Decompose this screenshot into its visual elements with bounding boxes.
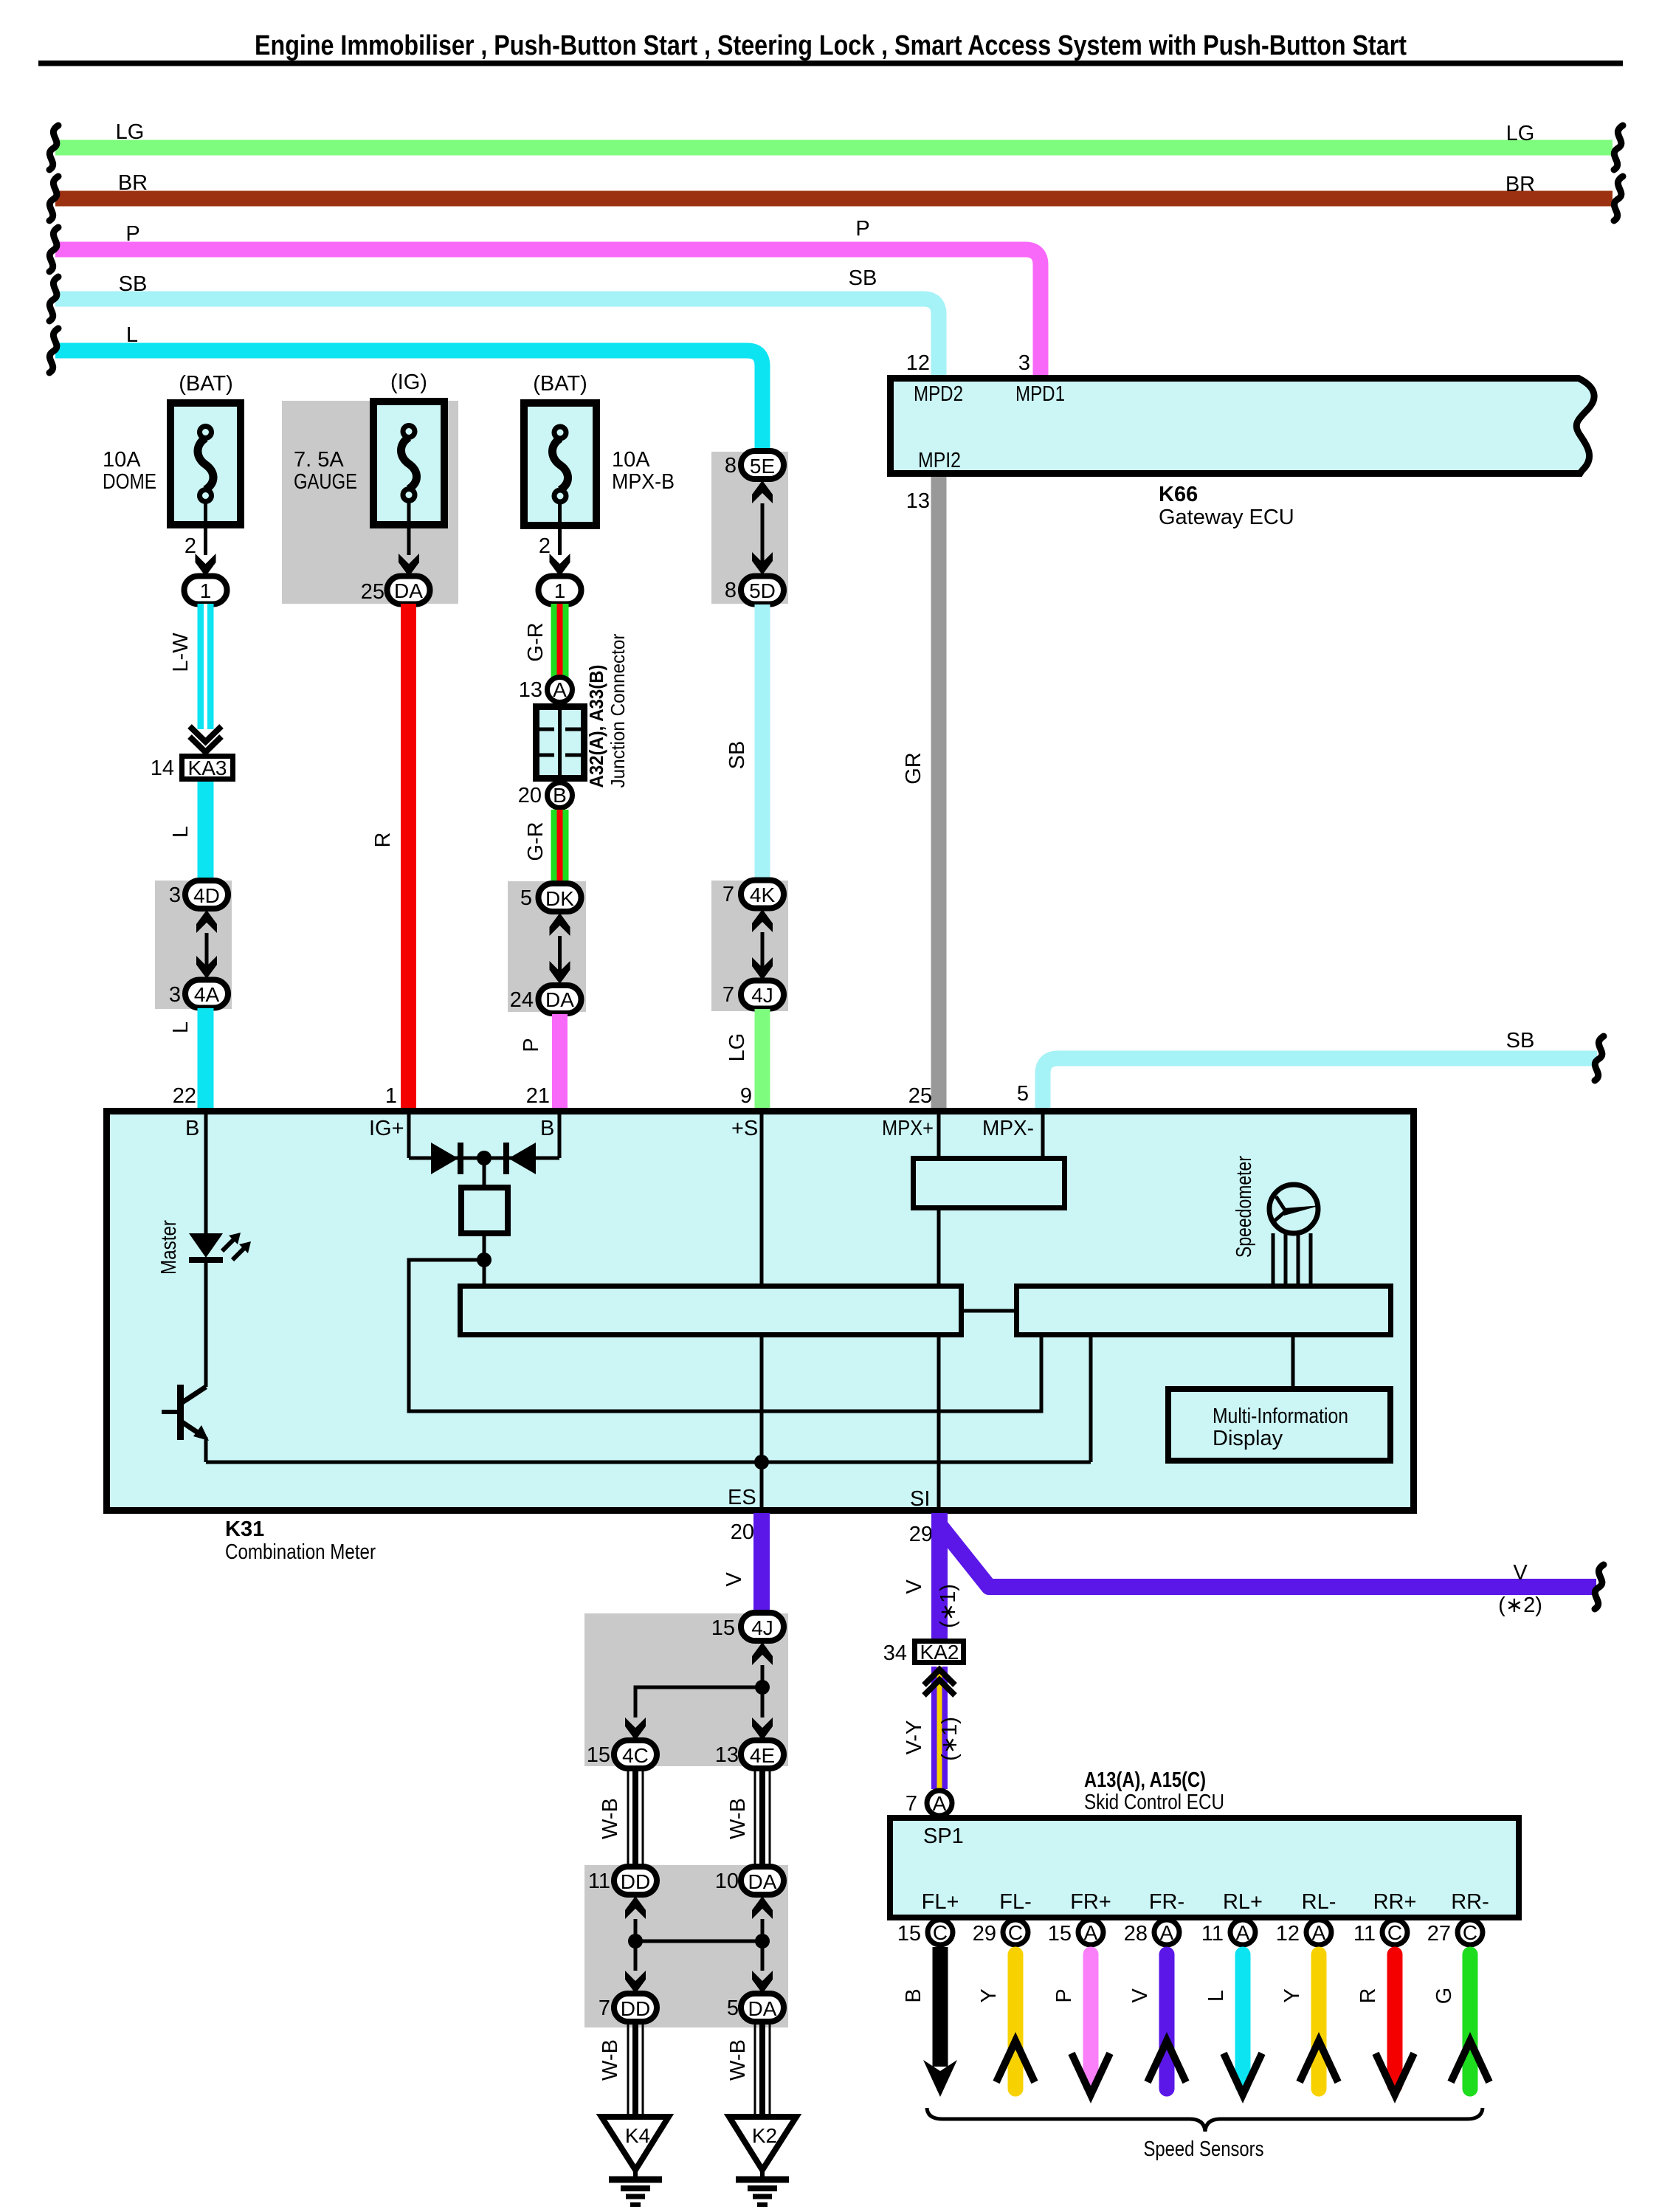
svg-text:(∗2): (∗2) bbox=[1498, 1593, 1542, 1617]
node diode junction bbox=[477, 1151, 492, 1165]
svg-text:24: 24 bbox=[510, 988, 534, 1012]
wire P bus bbox=[55, 217, 1041, 375]
arrow down into 4C bbox=[625, 1717, 646, 1740]
svg-text:W-B: W-B bbox=[599, 2039, 622, 2081]
connector DD pin 11 bbox=[588, 1867, 657, 1895]
svg-text:P: P bbox=[125, 222, 139, 246]
squiggle BR right bbox=[1614, 176, 1623, 221]
block MPX transceiver bbox=[914, 1159, 1065, 1208]
wire GR pin 13 (K66 MPI2 to meter MPX+ 25) bbox=[902, 477, 939, 1108]
wire V (meter SI pin 29 to KA2) bbox=[903, 1513, 960, 1640]
junction connector A32(A) A33(B) bbox=[537, 633, 630, 788]
svg-text:Skid Control ECU: Skid Control ECU bbox=[1084, 1791, 1224, 1814]
svg-text:7: 7 bbox=[599, 1996, 610, 2020]
svg-text:DOME: DOME bbox=[103, 470, 156, 494]
svg-text:3: 3 bbox=[169, 983, 181, 1007]
svg-text:MPD2: MPD2 bbox=[914, 382, 963, 406]
wire meter +S/ES vertical bbox=[760, 1114, 764, 1507]
svg-text:Gateway ECU: Gateway ECU bbox=[1159, 506, 1294, 529]
svg-text:G-R: G-R bbox=[524, 622, 548, 661]
svg-text:K4: K4 bbox=[625, 2124, 650, 2147]
connector 4J pin 7 bbox=[722, 981, 784, 1009]
svg-text:B: B bbox=[902, 1988, 925, 2002]
svg-text:P: P bbox=[520, 1038, 543, 1052]
squiggle SB left bbox=[49, 277, 58, 321]
svg-text:Multi-Information: Multi-Information bbox=[1213, 1405, 1348, 1428]
svg-text:DA: DA bbox=[394, 579, 423, 602]
squiggle LG right bbox=[1614, 125, 1623, 170]
wire to resistor bbox=[483, 1158, 486, 1185]
svg-text:21: 21 bbox=[526, 1084, 550, 1108]
wire B pin down bbox=[558, 1114, 562, 1158]
connector C pin 27 (RR-) bbox=[1427, 1920, 1483, 1946]
svg-text:G-R: G-R bbox=[524, 821, 548, 861]
connector C pin 11 (RR+) bbox=[1353, 1920, 1407, 1946]
connector 4E pin 13 bbox=[715, 1740, 784, 1768]
arrow down into DA bbox=[550, 961, 570, 984]
connector A pin 15 (FR+) bbox=[1048, 1920, 1103, 1946]
svg-text:FR-: FR- bbox=[1149, 1890, 1184, 1914]
svg-text:SI: SI bbox=[910, 1487, 930, 1511]
double chevron arrow KA2 bbox=[924, 1670, 955, 1695]
svg-text:A: A bbox=[1312, 1921, 1326, 1944]
arrow up into 4K bbox=[752, 909, 773, 932]
arrow up into DA bbox=[752, 1896, 773, 1919]
wire fuse GAUGE out bbox=[407, 501, 411, 555]
fuse DOME 10A (BAT) bbox=[103, 372, 241, 525]
wire loop left bbox=[409, 1260, 1041, 1411]
diode D1 bbox=[431, 1143, 463, 1174]
block bar1 bbox=[461, 1286, 962, 1335]
svg-text:GAUGE: GAUGE bbox=[294, 470, 357, 494]
wire SB (meter MPX- pin 5 to right) bbox=[1017, 1029, 1597, 1108]
wire R (RR+ sensor) bbox=[1356, 1954, 1414, 2095]
svg-text:5E: 5E bbox=[750, 455, 775, 478]
svg-text:11: 11 bbox=[588, 1870, 610, 1893]
svg-text:W-B: W-B bbox=[599, 1798, 622, 1839]
arrow up into DK bbox=[550, 913, 570, 936]
svg-text:12: 12 bbox=[906, 351, 930, 375]
connector 1 (MPX-B) bbox=[539, 576, 582, 604]
ECU K31 Combination Meter box bbox=[107, 1112, 1414, 1511]
svg-text:20: 20 bbox=[518, 784, 542, 807]
node DA link bbox=[755, 1934, 770, 1949]
svg-text:7: 7 bbox=[722, 883, 734, 906]
svg-text:34: 34 bbox=[883, 1641, 907, 1665]
svg-text:7. 5A: 7. 5A bbox=[294, 448, 344, 472]
svg-text:A13(A), A15(C): A13(A), A15(C) bbox=[1084, 1768, 1206, 1792]
squiggle LG left bbox=[49, 125, 58, 170]
wire W-B (DA to ground K2) bbox=[726, 2022, 770, 2118]
svg-text:5: 5 bbox=[1017, 1082, 1029, 1106]
svg-text:SP1: SP1 bbox=[923, 1825, 964, 1848]
wire W-B (4C to DD) bbox=[599, 1768, 643, 1867]
wire L (KA3 to 4D) bbox=[169, 782, 206, 881]
svg-text:P: P bbox=[1052, 1988, 1076, 2002]
svg-text:11: 11 bbox=[1201, 1922, 1224, 1946]
svg-text:(∗1): (∗1) bbox=[937, 1584, 960, 1628]
wire fuse MPX-B pin 2 bbox=[539, 501, 560, 558]
svg-text:13: 13 bbox=[519, 678, 542, 702]
connector A pin 28 (FR-) bbox=[1124, 1920, 1179, 1946]
svg-text:L: L bbox=[169, 826, 193, 838]
ground K4 bbox=[601, 2117, 669, 2180]
svg-text:FR+: FR+ bbox=[1070, 1890, 1111, 1914]
wire Y (FL- sensor) bbox=[977, 1954, 1035, 2089]
connector 4A pin 3 bbox=[169, 980, 228, 1008]
svg-text:R: R bbox=[371, 833, 395, 848]
wire IG+ pin down bbox=[407, 1114, 411, 1158]
svg-text:20: 20 bbox=[731, 1520, 754, 1544]
squiggle P left bbox=[49, 227, 58, 272]
connector A pin 11 (RL+) bbox=[1201, 1920, 1255, 1946]
arrow down into 4J bbox=[752, 957, 773, 980]
wire P (FR+ sensor) bbox=[1052, 1954, 1110, 2095]
svg-text:BR: BR bbox=[118, 171, 148, 195]
wire 4D-4A bbox=[205, 933, 209, 970]
gray bg DD/DA bbox=[584, 1865, 788, 2027]
svg-text:BR: BR bbox=[1505, 173, 1535, 196]
wire 4J split bbox=[761, 1665, 765, 1717]
svg-text:2: 2 bbox=[184, 534, 196, 558]
svg-text:(BAT): (BAT) bbox=[533, 372, 587, 396]
connector 1 (DOME) bbox=[184, 576, 227, 604]
svg-text:B: B bbox=[185, 1117, 199, 1140]
gray bg DK/DA bbox=[508, 881, 586, 1012]
svg-text:MPX+: MPX+ bbox=[882, 1117, 934, 1140]
svg-text:4D: 4D bbox=[193, 884, 220, 907]
svg-text:V: V bbox=[1513, 1561, 1528, 1585]
wire BR bus bbox=[55, 171, 1613, 199]
connector A pin 12 (RL-) bbox=[1276, 1920, 1331, 1946]
svg-text:RL+: RL+ bbox=[1223, 1890, 1263, 1914]
svg-text:Y: Y bbox=[1280, 1988, 1304, 2002]
node resistor junction bbox=[477, 1253, 492, 1267]
wire V-Y (KA2 to skid A pin 7) bbox=[903, 1667, 962, 1789]
svg-text:V-Y: V-Y bbox=[903, 1720, 926, 1755]
wire split to 4C bbox=[635, 1687, 762, 1717]
connector DA pin 24 bbox=[510, 985, 582, 1013]
diode D2 bbox=[503, 1143, 536, 1174]
svg-text:4A: 4A bbox=[194, 983, 220, 1006]
svg-text:V: V bbox=[722, 1572, 746, 1587]
connector DA pin 5 bbox=[727, 1994, 784, 2022]
squiggle V right bbox=[1595, 1565, 1604, 1609]
wire MPX+ pin down bbox=[937, 1114, 941, 1156]
wire fuse DOME pin 2 bbox=[184, 501, 206, 558]
gray bg 4K/4J bbox=[711, 881, 788, 1011]
svg-text:R: R bbox=[1356, 1988, 1380, 2004]
wire G (RR- sensor) bbox=[1432, 1954, 1489, 2089]
svg-text:DK: DK bbox=[545, 887, 574, 910]
wire emitter to ES line bbox=[204, 1437, 208, 1462]
title rule bbox=[38, 61, 1623, 66]
svg-text:MPX-B: MPX-B bbox=[612, 470, 675, 494]
svg-text:B: B bbox=[553, 784, 567, 807]
svg-text:L: L bbox=[126, 323, 138, 347]
fuse MPX-B 10A (BAT) bbox=[524, 372, 675, 526]
wire V (FR- sensor) bbox=[1128, 1954, 1186, 2089]
LED Master bbox=[157, 1220, 251, 1275]
svg-text:+S: +S bbox=[731, 1117, 758, 1140]
wire W-B (DD to ground K4) bbox=[599, 2022, 643, 2118]
gray bg GAUGE bbox=[282, 401, 458, 604]
svg-text:KA3: KA3 bbox=[188, 757, 227, 779]
svg-text:DA: DA bbox=[748, 1870, 777, 1893]
svg-text:K2: K2 bbox=[752, 2124, 777, 2147]
connector 4J pin 15 bbox=[711, 1613, 784, 1641]
wire L (RL+ sensor) bbox=[1204, 1954, 1262, 2095]
svg-text:C: C bbox=[1387, 1921, 1402, 1944]
connector C pin 15 (FL+) bbox=[897, 1920, 953, 1946]
wire meter MPX/SI vertical bbox=[937, 1210, 941, 1507]
ground K2 bbox=[729, 2117, 796, 2180]
svg-text:(∗1): (∗1) bbox=[938, 1717, 962, 1761]
svg-text:7: 7 bbox=[722, 983, 734, 1007]
connector 4K pin 7 bbox=[722, 881, 784, 909]
svg-text:4J: 4J bbox=[751, 984, 773, 1007]
wire V (meter ES pin 20 to 4J) bbox=[722, 1513, 762, 1615]
connector 4D pin 3 bbox=[169, 881, 228, 909]
connector 5E pin 8 bbox=[725, 451, 784, 479]
svg-text:A: A bbox=[1084, 1921, 1098, 1944]
meter pin labels top bbox=[185, 1117, 1034, 1140]
svg-text:DD: DD bbox=[621, 1870, 650, 1893]
svg-text:13: 13 bbox=[715, 1743, 739, 1767]
fuse GAUGE 7.5A (IG) bbox=[294, 371, 444, 525]
svg-text:G: G bbox=[1432, 1988, 1456, 2005]
wire G-R (MPX-B 1 to junction A) bbox=[524, 604, 560, 678]
wire LG bus bbox=[55, 120, 1613, 148]
squiggle L left bbox=[49, 328, 58, 373]
wire speedometer stems bbox=[1273, 1233, 1311, 1286]
connector C pin 29 (FL-) bbox=[973, 1920, 1028, 1946]
svg-text:L: L bbox=[1204, 1990, 1228, 2002]
ECU A13(A) A15(C) Skid Control bbox=[890, 1768, 1519, 1918]
svg-text:A32(A), A33(B): A32(A), A33(B) bbox=[585, 665, 607, 788]
svg-text:25: 25 bbox=[908, 1084, 932, 1108]
brace speed sensors bbox=[927, 2108, 1483, 2132]
svg-text:W-B: W-B bbox=[726, 2039, 750, 2081]
wire DD-DA link bbox=[635, 1940, 762, 1943]
svg-text:5: 5 bbox=[520, 886, 532, 910]
svg-text:15: 15 bbox=[587, 1743, 610, 1767]
wire riser to bar2 bbox=[1089, 1336, 1093, 1462]
svg-text:3: 3 bbox=[169, 883, 181, 907]
wire diode rail bbox=[409, 1157, 559, 1160]
skid pin labels bbox=[922, 1890, 1489, 1914]
svg-text:MPI2: MPI2 bbox=[918, 449, 961, 472]
connector DA 25 (GAUGE) bbox=[361, 576, 430, 604]
svg-text:RL-: RL- bbox=[1302, 1890, 1336, 1914]
svg-text:14: 14 bbox=[151, 757, 174, 780]
svg-text:7: 7 bbox=[906, 1792, 917, 1816]
svg-text:SB: SB bbox=[725, 741, 749, 770]
connector 4C pin 15 bbox=[587, 1740, 657, 1768]
arrow into connector DA (GAUGE) bbox=[399, 554, 419, 576]
wire G-R (junction B to DK) bbox=[524, 810, 560, 884]
svg-text:25: 25 bbox=[361, 580, 384, 604]
svg-text:RR+: RR+ bbox=[1373, 1890, 1417, 1914]
connector DD pin 7 bbox=[599, 1994, 657, 2022]
svg-text:15: 15 bbox=[1048, 1922, 1072, 1946]
connector A pin 7 (skid) bbox=[906, 1791, 952, 1816]
svg-text:C: C bbox=[1008, 1921, 1023, 1944]
wire Y (RL- sensor) bbox=[1280, 1954, 1338, 2089]
connector KA3 pin 14 bbox=[151, 757, 233, 781]
wire resistor to bar1 bbox=[483, 1233, 486, 1285]
svg-text:3: 3 bbox=[1018, 351, 1030, 375]
svg-text:MPD1: MPD1 bbox=[1015, 382, 1065, 406]
svg-text:8: 8 bbox=[725, 454, 737, 478]
svg-text:MPX-: MPX- bbox=[982, 1117, 1034, 1140]
connector DA pin 10 bbox=[715, 1867, 784, 1895]
arrow up into 4D bbox=[196, 910, 217, 933]
wire L bus bbox=[55, 323, 762, 451]
ground symbol K2 bbox=[736, 2180, 789, 2205]
svg-text:Master: Master bbox=[157, 1220, 181, 1275]
svg-text:2: 2 bbox=[539, 534, 551, 558]
wire LED to transistor bbox=[204, 1263, 208, 1387]
svg-text:Y: Y bbox=[977, 1988, 1001, 2002]
svg-text:4C: 4C bbox=[622, 1744, 649, 1767]
arrow up into 4J bbox=[752, 1642, 773, 1665]
node DD link bbox=[628, 1934, 643, 1949]
svg-text:4J: 4J bbox=[751, 1616, 773, 1639]
svg-text:29: 29 bbox=[909, 1523, 933, 1546]
svg-text:A: A bbox=[1160, 1921, 1174, 1944]
svg-text:Junction Connector: Junction Connector bbox=[607, 633, 629, 788]
svg-text:FL+: FL+ bbox=[922, 1890, 959, 1914]
wire MPX- pin down bbox=[1041, 1114, 1045, 1156]
svg-text:C: C bbox=[1463, 1921, 1477, 1944]
squiggle SB right bbox=[1595, 1036, 1604, 1081]
wire bar2 to MID bbox=[1291, 1334, 1295, 1386]
wire bar bridge bbox=[962, 1309, 1017, 1313]
wire L-W (DOME to KA3) bbox=[169, 604, 206, 729]
svg-text:10: 10 bbox=[715, 1870, 739, 1893]
svg-text:10A: 10A bbox=[612, 448, 650, 472]
wire SB (5D to 4K) bbox=[725, 604, 762, 881]
svg-text:LG: LG bbox=[1506, 122, 1535, 145]
svg-text:LG: LG bbox=[116, 120, 145, 144]
node ES junction bbox=[754, 1455, 769, 1470]
svg-text:LG: LG bbox=[725, 1033, 749, 1062]
svg-text:V: V bbox=[903, 1579, 926, 1594]
ground symbol K4 bbox=[609, 2180, 662, 2205]
svg-text:11: 11 bbox=[1353, 1922, 1376, 1946]
svg-text:(BAT): (BAT) bbox=[179, 372, 233, 396]
wire W-B (4E to DA) bbox=[726, 1768, 770, 1867]
svg-text:B: B bbox=[540, 1117, 554, 1140]
wire B (FL+ sensor) bbox=[902, 1947, 957, 2097]
wire 5E-5D bbox=[761, 503, 765, 567]
svg-text:SB: SB bbox=[119, 272, 148, 296]
wire DK-DA bbox=[558, 936, 562, 973]
svg-text:15: 15 bbox=[711, 1616, 735, 1640]
gray bg 4J/4C/4E bbox=[584, 1613, 788, 1766]
connector 5D pin 8 bbox=[725, 576, 784, 604]
connector B pin 20 (junction) bbox=[518, 783, 573, 808]
svg-text:Engine Immobiliser , Push-Butt: Engine Immobiliser , Push-Button Start ,… bbox=[255, 30, 1407, 61]
arrow up into 5E bbox=[752, 480, 773, 503]
wire V branch (*2) to right bbox=[939, 1525, 1596, 1617]
arrow down into 5D bbox=[752, 552, 773, 575]
svg-text:P: P bbox=[855, 217, 869, 241]
svg-text:RR-: RR- bbox=[1451, 1890, 1489, 1914]
svg-text:4E: 4E bbox=[750, 1744, 775, 1767]
svg-text:Speed Sensors: Speed Sensors bbox=[1144, 2137, 1264, 2161]
gray bg 4D/4A bbox=[155, 881, 232, 1009]
svg-text:C: C bbox=[933, 1921, 948, 1944]
svg-text:27: 27 bbox=[1427, 1922, 1451, 1946]
arrow down into 4E bbox=[752, 1717, 773, 1740]
arrow into connector 1 MPX-B bbox=[550, 554, 570, 576]
svg-text:1: 1 bbox=[200, 579, 212, 602]
svg-text:4K: 4K bbox=[750, 883, 776, 906]
double chevron arrow KA3 bbox=[190, 726, 221, 752]
K31 name bbox=[225, 1517, 376, 1564]
transistor Q bbox=[162, 1385, 209, 1441]
svg-text:12: 12 bbox=[1276, 1922, 1300, 1946]
ECU K66 Gateway bbox=[891, 379, 1595, 530]
arrow down into DA lower bbox=[752, 1971, 773, 1994]
svg-text:15: 15 bbox=[897, 1922, 921, 1946]
svg-text:K66: K66 bbox=[1159, 483, 1198, 506]
svg-text:28: 28 bbox=[1124, 1922, 1148, 1946]
svg-text:KA2: KA2 bbox=[920, 1641, 959, 1664]
svg-text:GR: GR bbox=[902, 752, 925, 785]
arrow down into DD lower bbox=[625, 1971, 646, 1994]
svg-text:Display: Display bbox=[1213, 1427, 1283, 1450]
svg-text:SB: SB bbox=[1506, 1029, 1535, 1052]
svg-text:DA: DA bbox=[545, 988, 574, 1011]
wire LG (4J to meter pin 9) bbox=[725, 1009, 762, 1108]
speedometer bbox=[1232, 1156, 1321, 1258]
svg-text:IG+: IG+ bbox=[369, 1117, 404, 1140]
svg-text:A: A bbox=[1236, 1921, 1250, 1944]
arrow into connector 1 DOME bbox=[196, 554, 216, 576]
meter pin labels bottom bbox=[728, 1486, 930, 1511]
svg-text:DA: DA bbox=[748, 1997, 777, 2020]
wire R (DA to meter pin 1) bbox=[371, 604, 409, 1108]
squiggle BR left bbox=[49, 176, 58, 221]
svg-text:Combination Meter: Combination Meter bbox=[225, 1540, 376, 1564]
svg-text:W-B: W-B bbox=[726, 1798, 750, 1839]
wire L (4A to meter pin 22) bbox=[169, 1008, 206, 1108]
svg-text:5D: 5D bbox=[749, 579, 776, 602]
arrow up into DD bbox=[625, 1896, 646, 1919]
node 4J split bbox=[755, 1680, 770, 1695]
svg-text:29: 29 bbox=[973, 1922, 996, 1946]
block Multi-Information Display bbox=[1168, 1389, 1390, 1461]
connector DK pin 5 bbox=[520, 883, 582, 912]
svg-text:A: A bbox=[553, 678, 567, 701]
svg-text:(IG): (IG) bbox=[390, 371, 427, 394]
connector A pin 13 (junction) bbox=[519, 678, 573, 703]
wire meter B pin to LED bbox=[204, 1114, 208, 1233]
svg-text:Speedometer: Speedometer bbox=[1232, 1156, 1256, 1258]
svg-text:V: V bbox=[1128, 1988, 1152, 2003]
svg-text:1: 1 bbox=[385, 1084, 397, 1108]
arrow down into 4A bbox=[196, 956, 217, 979]
wire SB bus bbox=[55, 266, 939, 375]
svg-text:FL-: FL- bbox=[999, 1890, 1032, 1914]
svg-text:SB: SB bbox=[849, 266, 877, 290]
svg-text:9: 9 bbox=[740, 1084, 752, 1108]
gray bg 5E/5D bbox=[711, 452, 788, 604]
svg-text:DD: DD bbox=[621, 1997, 650, 2020]
